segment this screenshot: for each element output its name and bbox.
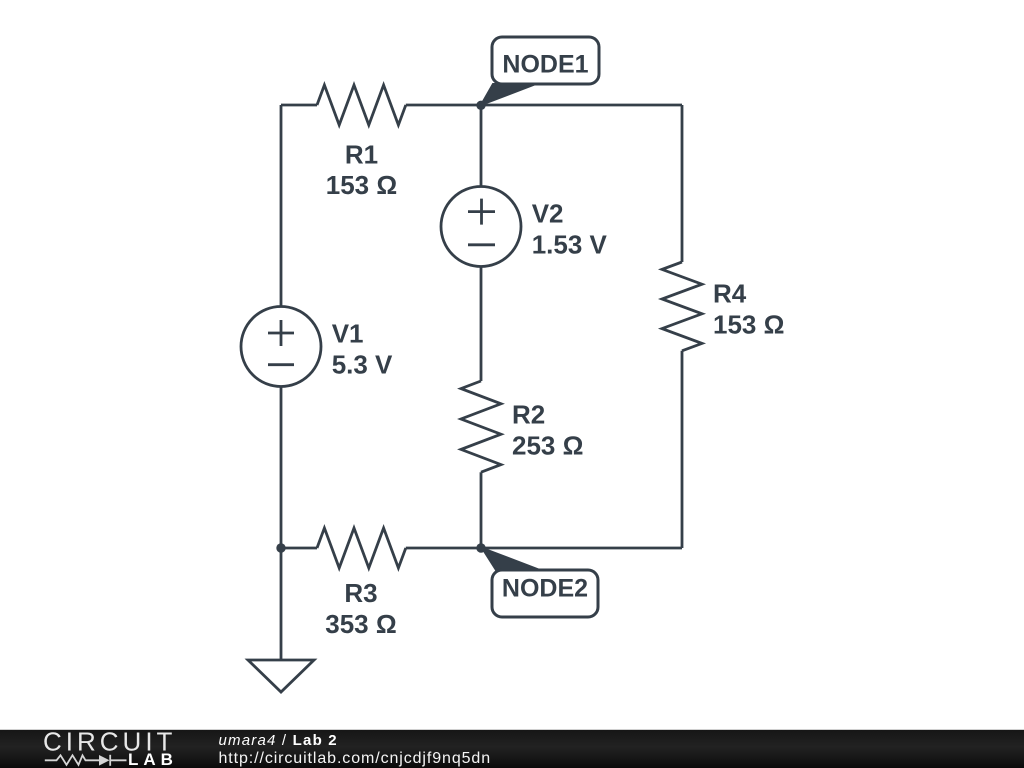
wire NODE1 to top-right corner [481,104,682,107]
svg-text:NODE2: NODE2 [502,575,588,603]
footer title umara4 / Lab 2 [219,732,338,749]
ground [248,660,314,692]
resistor R3 [317,528,406,568]
logo LAB [128,750,178,768]
label R2 value [512,400,583,461]
svg-text:353 Ω: 353 Ω [325,609,396,639]
node NODE2 dot [476,543,485,552]
footer url [219,750,492,767]
label R4 value [713,279,784,340]
wire bottom junction to R3 [281,547,317,550]
wire R4 to bottom-right corner [681,351,684,548]
footer bar [0,730,1024,768]
junction dot bottom-left [276,543,285,552]
wire V1 to bottom junction [280,387,283,549]
wire right column top to R4 [681,105,684,262]
svg-text:153 Ω: 153 Ω [713,310,784,340]
label V2 value [532,198,608,259]
svg-text:umara4 / Lab 2: umara4 / Lab 2 [219,732,338,749]
wire junction to ground [280,548,283,660]
svg-text:V1: V1 [332,319,364,349]
label R3 value [325,578,396,639]
svg-text:153 Ω: 153 Ω [326,170,397,200]
label R1 value [326,140,397,201]
svg-text:V2: V2 [532,198,564,228]
wire NODE1 to V2 [480,105,483,187]
svg-text:NODE1: NODE1 [502,51,588,79]
CircuitLab logo CIRCUIT [43,727,176,757]
wire V2 to R2 [480,267,483,382]
svg-text:1.53 V: 1.53 V [532,230,608,260]
svg-text:LAB: LAB [128,750,178,768]
wire R3 to NODE2 [406,547,481,550]
svg-text:5.3 V: 5.3 V [332,350,393,380]
svg-text:253 Ω: 253 Ω [512,431,583,461]
svg-text:R1: R1 [345,140,378,170]
svg-text:R3: R3 [344,578,377,608]
svg-text:http://circuitlab.com/cnjcdjf9: http://circuitlab.com/cnjcdjf9nq5dn [219,750,492,767]
svg-text:R4: R4 [713,279,747,309]
wire left column top to V1 [280,105,283,307]
wire top-left corner to R1 [281,104,317,107]
svg-text:R2: R2 [512,400,545,430]
wire NODE2 to bottom-right corner [481,547,682,550]
voltage source V1 [241,307,321,387]
voltage source V2 [441,187,521,267]
logo resistor-diode squiggle [45,755,127,766]
wire R2 to NODE2 [480,472,483,548]
resistor R4 [662,262,702,351]
label V1 value [332,319,393,380]
node label NODE1 flag [481,37,599,105]
resistor R2 [461,381,501,472]
resistor R1 [317,85,406,125]
node label NODE2 flag [482,548,598,617]
node NODE1 dot [476,101,485,110]
wire R1 to node NODE1 [406,104,481,107]
